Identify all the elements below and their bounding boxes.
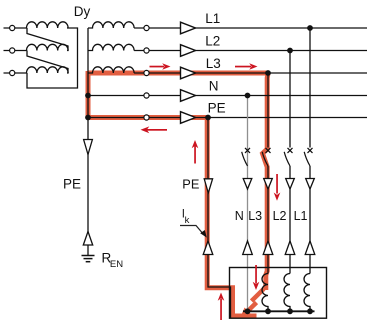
feeder continuation arrow down L3 (264, 179, 273, 190)
fault current highlight: L3 bus segment (88, 71, 268, 76)
motor winding L3 (262, 274, 268, 312)
feeder continuation arrow down PE (204, 179, 212, 193)
junction dot star point L3 (265, 308, 271, 314)
svg-text:L3: L3 (206, 56, 221, 71)
red arrow left under PE bus (141, 126, 168, 133)
switch contact L2 (284, 148, 292, 166)
svg-text:EN: EN (110, 259, 123, 270)
svg-text:Dy: Dy (74, 4, 91, 19)
primary terminal circle 3 (10, 70, 15, 75)
L3 bus line (134, 72, 367, 74)
fault current highlight: PE vertical return path (207, 118, 256, 317)
feeder continuation arrow down N (243, 179, 252, 190)
N distribution vertical (247, 96, 249, 312)
red arrow right on L3 after circle (150, 63, 171, 70)
L2 distribution vertical upper (289, 51, 291, 148)
delta link coil3 start to coil1 end (27, 28, 78, 88)
primary terminal circle 2 (10, 48, 15, 53)
junction dot star bus N (85, 93, 91, 99)
svg-text:PE: PE (63, 177, 81, 192)
switch contact N (242, 148, 250, 166)
L3 distribution vertical upper (267, 73, 269, 148)
svg-text:L2: L2 (205, 34, 220, 49)
junction dot star point L1 (307, 308, 313, 314)
junction dot PE tap (205, 115, 211, 121)
primary winding coil 2 (27, 44, 69, 50)
secondary winding coil L1 (88, 22, 134, 28)
junction dot L1 tap (307, 25, 313, 31)
primary terminal circle 1 (10, 25, 15, 30)
bus continuation arrow L1 (181, 22, 196, 34)
motor star point bar (243, 310, 315, 312)
feeder continuation arrow up L1 (305, 241, 315, 255)
svg-text:N: N (235, 209, 244, 223)
fault current highlight: L3 vertical drop with switch jog (263, 73, 269, 290)
svg-text:N: N (209, 79, 219, 94)
red arrow up beside PE vertical (192, 140, 199, 164)
feeder continuation arrow down L1 (306, 179, 315, 190)
red arrow up beside bottom PE return (218, 293, 225, 321)
svg-text:k: k (185, 215, 190, 226)
delta link coil2 start to coil3 end (27, 51, 68, 74)
primary input line 1 (4, 27, 28, 29)
junction dot L3 tap (265, 70, 271, 76)
svg-text:L2: L2 (273, 209, 287, 223)
primary input line 3 (4, 72, 28, 74)
PE distribution vertical (208, 118, 231, 319)
bus terminal circle N (144, 93, 149, 98)
feeder continuation arrow up N (243, 241, 253, 255)
bus continuation arrow N (181, 90, 196, 102)
PE bus line (88, 117, 367, 119)
fault current highlight: PE bus segment (88, 115, 208, 120)
svg-text:PE: PE (182, 176, 199, 191)
L1 distribution vertical lower (309, 166, 311, 274)
secondary winding coil L3 (88, 67, 134, 73)
feeder continuation arrow up L2 (285, 241, 295, 255)
red arrow down between L3 and L2 feeders (274, 174, 281, 201)
L2 distribution vertical lower (289, 166, 291, 274)
motor winding L2 (284, 274, 290, 312)
secondary winding coil L2 (88, 44, 134, 50)
PE lead continuation arrow down (84, 140, 93, 155)
bus terminal circle PE (144, 115, 149, 120)
switch contact L1 (304, 148, 312, 166)
feeder continuation arrow up PE (203, 241, 213, 255)
L1 distribution vertical upper (309, 28, 311, 148)
PE lead continuation arrow up (83, 232, 92, 246)
primary input line 2 (4, 50, 28, 52)
fault current highlight: star-point bus segment (86, 71, 91, 118)
fault flash bolt arrow (240, 287, 266, 318)
N bus line (88, 95, 367, 97)
bus continuation arrow PE (181, 112, 196, 124)
bus continuation arrow L2 (181, 45, 196, 57)
secondary star bus (87, 28, 89, 118)
Ik pointer arrow (180, 226, 207, 238)
L3 distribution vertical lower (267, 166, 269, 274)
junction dot L2 tap (287, 48, 293, 54)
feeder continuation arrow up L3 (263, 241, 273, 255)
junction dot N tap (245, 93, 251, 99)
motor enclosure box (230, 268, 327, 319)
bus continuation arrow L3 (181, 67, 196, 79)
bus terminal circle L2 (144, 48, 149, 53)
bus terminal circle L1 (144, 25, 149, 30)
PE earthing lead (87, 118, 89, 256)
bus terminal circle L3 (144, 70, 149, 75)
switch contact L3 (262, 148, 270, 166)
delta link coil1 start to coil2 end (27, 28, 68, 51)
junction dot star bus PE (85, 115, 91, 121)
primary winding coil 1 (27, 22, 69, 28)
red arrow right on L3 after label (235, 63, 258, 70)
feeder continuation arrow down L2 (286, 179, 295, 190)
junction dot star point L2 (287, 308, 293, 314)
motor winding L1 (304, 274, 310, 312)
svg-text:L1: L1 (205, 11, 220, 26)
primary winding coil 3 (27, 67, 69, 73)
red arrow down inside motor box (253, 265, 260, 290)
earth electrode ground symbol (82, 256, 95, 262)
svg-text:PE: PE (208, 101, 226, 116)
L1 bus line (134, 27, 367, 29)
junction dot star point N (245, 308, 251, 314)
svg-text:L3: L3 (248, 209, 262, 223)
L2 bus line (134, 50, 367, 52)
svg-text:L1: L1 (294, 209, 308, 223)
